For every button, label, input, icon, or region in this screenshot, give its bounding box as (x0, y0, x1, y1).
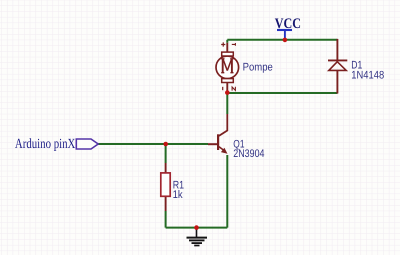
svg-text:Arduino pinX: Arduino pinX (15, 137, 76, 152)
svg-text:2N3904: 2N3904 (233, 148, 264, 160)
pin: R1 top (165, 163, 167, 173)
pin: diode top (336, 39, 338, 61)
diode D1 (328, 60, 347, 70)
wire: motor bottom to diode bottom (227, 92, 337, 94)
wire: emitter vertical (226, 155, 228, 228)
wire: collector vertical (226, 93, 228, 114)
wire: R1 top lead (165, 144, 167, 163)
wire: motor top stub (226, 40, 228, 43)
pin: transistor base (208, 143, 217, 145)
terminal Arduino pinX (76, 139, 98, 149)
cathode bar (328, 59, 347, 61)
plus marker (221, 42, 225, 46)
pin: transistor collector (219, 114, 227, 136)
wire: bottom rail (166, 227, 228, 229)
base bar (217, 134, 219, 150)
svg-text:1k: 1k (173, 189, 183, 201)
junction motor bottom (225, 90, 230, 95)
pin number 1 (232, 43, 236, 46)
pin: motor bottom (226, 83, 228, 93)
emitter line (219, 147, 223, 150)
junction ground (194, 225, 199, 230)
wire: R1 bottom lead (165, 211, 167, 228)
letter M (221, 59, 233, 73)
junction VCC (283, 38, 288, 43)
wire: VCC top rail from motor to diode (227, 39, 337, 41)
pin number 2 (232, 87, 235, 91)
bottom terminal block (222, 79, 234, 83)
resistor R1 (161, 173, 170, 196)
anode triangle (329, 62, 346, 71)
ground (187, 228, 208, 246)
body circle (216, 56, 239, 79)
svg-text:Pompe: Pompe (243, 61, 273, 73)
transistor Q1 body (218, 134, 227, 153)
minus marker (222, 87, 224, 90)
motor Pompe (216, 42, 239, 90)
power terminal VCC (277, 30, 292, 40)
emitter arrow (221, 148, 228, 154)
pin: motor top (226, 43, 228, 52)
junction base/R1 (163, 142, 168, 147)
wire: base wire from terminal (98, 143, 209, 145)
top terminal block (222, 52, 234, 56)
pin: R1 bottom (165, 196, 167, 211)
svg-text:1N4148: 1N4148 (351, 70, 384, 82)
pin: diode bottom (336, 71, 338, 94)
svg-text:VCC: VCC (275, 16, 301, 32)
